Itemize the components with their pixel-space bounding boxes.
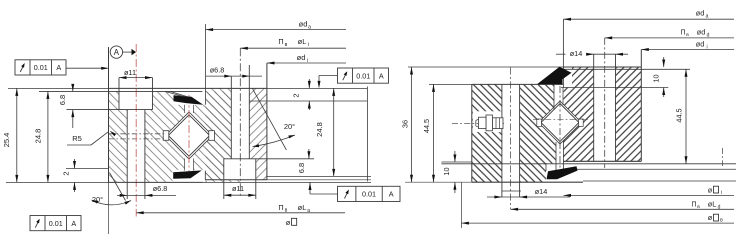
channel wall a2	[562, 88, 564, 106]
left counterbore hole (ø11) cutout	[119, 87, 153, 109]
dimension Пв ød_d R	[605, 27, 734, 39]
hole L wall left R	[501, 84, 503, 197]
dimension 44.5 right	[675, 69, 688, 164]
left view outer ring section left part (hatched)	[205, 88, 240, 179]
outer ring bottom step edge	[204, 171, 206, 180]
hole L wall right	[144, 110, 146, 199]
datum A balloon	[110, 46, 136, 58]
dimension ød_a top	[206, 19, 346, 31]
svg-text:i: i	[706, 44, 707, 50]
bottom roller channel cutout	[185, 156, 194, 170]
raceway notch left vertex	[163, 131, 169, 141]
seal step edge R	[562, 19, 564, 87]
svg-text:ø: ø	[708, 185, 713, 194]
feature control frame top right	[338, 68, 389, 83]
outer ring top second line R	[563, 68, 690, 70]
channel wall b	[562, 140, 564, 171]
left hole centerline R	[510, 68, 512, 210]
hole L wall right R	[519, 84, 521, 197]
top seal	[166, 92, 204, 105]
dimension 2 left	[62, 159, 77, 192]
roller diamond right view	[541, 104, 579, 142]
svg-text:36: 36	[401, 120, 410, 128]
raceway notch left vertex R	[537, 119, 542, 126]
dimension ø14 top	[556, 49, 628, 58]
svg-text:в: в	[720, 218, 723, 224]
svg-text:A: A	[56, 63, 61, 72]
roller cavity right view	[539, 101, 582, 144]
dimension 36	[401, 67, 414, 182]
svg-text:ød: ød	[299, 19, 308, 28]
svg-text:ø6.8: ø6.8	[210, 66, 225, 75]
dimension ø14 bottom	[487, 187, 570, 198]
svg-text:a: a	[706, 13, 709, 19]
outer ring relief line right	[249, 100, 367, 102]
hole R wall left	[230, 76, 232, 159]
right hole centerline R	[604, 38, 606, 168]
counterbore left floor + ext	[67, 109, 153, 111]
dimension 24.8 left	[34, 91, 50, 182]
dimension ød_i	[267, 53, 346, 64]
right ring bolt hole cutout	[594, 67, 616, 162]
svg-text:A: A	[71, 219, 76, 228]
svg-text:i: i	[721, 190, 722, 196]
inner ring top relief line	[39, 90, 202, 92]
nipple centerline	[452, 123, 504, 125]
hole R wall right R	[615, 54, 617, 161]
svg-text:ød: ød	[297, 53, 306, 62]
svg-text:ø11: ø11	[232, 184, 244, 193]
left edge ext R down	[460, 182, 462, 228]
svg-text:П: П	[680, 29, 685, 36]
roller centerline R	[559, 86, 561, 176]
svg-text:0.01: 0.01	[49, 219, 63, 228]
right view inner ring section (hatched)	[472, 84, 561, 182]
svg-text:0.01: 0.01	[356, 71, 370, 80]
right through hole (ø6.8) cutout	[231, 87, 249, 158]
svg-text:в: в	[686, 33, 689, 38]
svg-text:20°: 20°	[284, 122, 295, 131]
dimension 25.4	[2, 88, 18, 182]
grease nipple	[476, 115, 503, 131]
dimension 10 left	[442, 151, 456, 193]
fcf leader top right	[318, 76, 338, 89]
svg-text:24.8: 24.8	[34, 129, 43, 144]
svg-text:ø14: ø14	[570, 49, 583, 58]
svg-text:П: П	[278, 203, 283, 212]
channel wall a	[553, 84, 555, 110]
top seal R	[537, 67, 572, 84]
outer ring 20 deg bevel line	[252, 88, 286, 150]
bottom roller channel walls	[185, 159, 194, 171]
stray centerline right margin	[722, 148, 724, 166]
raceway center dash line upper	[109, 133, 166, 135]
inner ring bottom edge R + ext	[405, 181, 736, 182]
dimension Пв øL_d bottom R	[511, 199, 734, 210]
bottom seal groove cutout	[173, 170, 206, 183]
bottom seal	[173, 170, 202, 178]
bottom seal R	[547, 166, 578, 179]
svg-text:44.5: 44.5	[422, 119, 431, 133]
label øD bottom	[286, 218, 297, 227]
dimension 6.8 right	[297, 149, 311, 173]
svg-text:A: A	[389, 190, 394, 199]
svg-text:ød: ød	[696, 39, 705, 48]
dimension øD_a bottom R	[461, 213, 734, 224]
hole R wall right	[248, 65, 250, 159]
dimension 24.8 right	[315, 88, 335, 176]
svg-text:ød: ød	[696, 8, 705, 17]
dimension ød_i R	[641, 39, 734, 51]
svg-text:П: П	[691, 201, 696, 208]
counterbore right floor + ext	[224, 158, 314, 160]
grease nipple cavity cutout	[473, 111, 504, 132]
left view inner ring section (hatched)	[109, 91, 241, 182]
left view outer ring section right part (hatched)	[240, 88, 267, 179]
roller red centerline	[188, 95, 190, 176]
hole L wall left	[126, 110, 128, 199]
outer ring bottom edge R	[563, 160, 641, 162]
svg-text:ø11: ø11	[124, 68, 136, 77]
raceway center dash line lower	[109, 138, 166, 140]
right hole centerline	[239, 48, 241, 196]
left edge ext down	[108, 182, 110, 234]
dimension 6.8 left	[58, 84, 75, 128]
svg-text:в: в	[285, 208, 288, 214]
angle 20 deg right	[253, 122, 296, 147]
inner ring top edge R + ext	[429, 83, 563, 85]
dimension 10 right	[652, 57, 666, 97]
counterbore L wall right	[152, 78, 154, 110]
svg-text:в: в	[285, 42, 288, 48]
vertical ext line right of left view	[366, 87, 368, 182]
inner ring 20 deg bevel line	[110, 173, 126, 201]
left hole red centerline	[135, 44, 137, 217]
svg-text:ø14: ø14	[535, 187, 548, 196]
right view outer ring section (hatched)	[561, 67, 641, 162]
inner ring top edge	[8, 87, 367, 89]
raceway notch right vertex	[209, 131, 215, 141]
left ring left edge R	[471, 84, 473, 182]
svg-text:i: i	[307, 58, 308, 64]
svg-text:в: в	[697, 205, 700, 210]
feature control frame top left	[15, 60, 66, 75]
svg-text:ø6.8: ø6.8	[153, 184, 168, 193]
right counterbore hole (ø11) cutout	[224, 159, 256, 180]
seal line ext R	[570, 168, 736, 170]
feature control frame bottom left	[30, 216, 81, 231]
dimension 44.5 left	[422, 84, 435, 182]
inner bore relief ext	[66, 168, 109, 170]
svg-text:ød: ød	[697, 27, 706, 36]
dimension øD_i bottom R	[564, 185, 735, 197]
outer ring bottom relief ext	[267, 175, 371, 177]
outer ring top edge R + ext	[408, 66, 641, 68]
svg-text:2: 2	[62, 171, 71, 175]
svg-text:44.5: 44.5	[675, 108, 684, 122]
svg-text:0.01: 0.01	[362, 190, 376, 199]
svg-text:0.01: 0.01	[34, 63, 48, 72]
seal zone left wall bottom	[545, 163, 547, 171]
svg-text:A: A	[379, 71, 384, 80]
svg-text:10: 10	[442, 167, 451, 175]
svg-text:øL: øL	[298, 203, 307, 212]
top roller channel walls	[185, 105, 194, 113]
dimension Пв øL_a	[136, 203, 345, 215]
left ring bolt hole cutout	[502, 84, 520, 182]
dimension ø6.8 top	[206, 66, 262, 78]
dimension R5 with leader	[67, 131, 116, 145]
fcf leader bottom right	[309, 183, 338, 195]
top roller channel cutout	[185, 105, 194, 116]
outer ring bottom edge + ext	[205, 179, 371, 181]
raceway center dash R	[533, 119, 588, 121]
fcf leader top left	[66, 67, 109, 70]
outer ring right edge	[266, 63, 268, 180]
inner ring left edge (bore)	[108, 47, 110, 182]
svg-text:6.8: 6.8	[58, 95, 67, 105]
svg-text:øL: øL	[298, 37, 307, 46]
svg-text:R5: R5	[72, 134, 82, 143]
svg-text:øL: øL	[708, 199, 717, 208]
right ring right edge R	[640, 50, 642, 162]
bottom roller channel cutout R	[556, 137, 563, 163]
svg-text:25.4: 25.4	[2, 133, 11, 148]
channel wall c	[555, 142, 557, 170]
angle 20 deg bottom left	[92, 195, 132, 205]
inner ring bottom edge + ext	[6, 181, 371, 183]
dimension 2 right	[292, 79, 311, 110]
svg-text:A: A	[114, 48, 120, 57]
outer ring bottom ext R	[441, 163, 736, 165]
seal groove floor R	[561, 87, 668, 89]
top seal groove cutout	[174, 91, 206, 104]
hole R wall left R	[593, 54, 595, 161]
seal step edge + ext up	[205, 24, 207, 105]
counterbore L wall left	[118, 78, 120, 110]
ext line hole bottom R	[502, 190, 521, 192]
left through hole (ø6.8) cutout	[127, 110, 145, 183]
ext line 162 left	[441, 161, 471, 163]
svg-text:П: П	[278, 37, 283, 46]
svg-text:ø: ø	[286, 218, 291, 227]
roller (diamond) section	[168, 115, 209, 156]
dimension ø11 top	[119, 68, 153, 79]
svg-text:10: 10	[652, 74, 661, 82]
svg-text:ø: ø	[708, 213, 713, 222]
roller cavity (raceway)	[166, 112, 213, 159]
svg-text:d: d	[707, 32, 710, 38]
dimension ø11 bottom	[224, 184, 256, 197]
dimension Пв øL_i	[240, 37, 346, 50]
svg-text:a: a	[307, 208, 310, 214]
counterbore R wall left	[223, 159, 225, 199]
bottom seal zone cutout	[546, 163, 563, 182]
dimension ød_a R	[564, 8, 735, 20]
seal groove top cutout	[561, 67, 572, 88]
svg-text:6.8: 6.8	[297, 163, 306, 173]
svg-text:d: d	[718, 204, 721, 210]
counterbore R wall right	[255, 159, 257, 199]
svg-text:i: i	[308, 42, 309, 48]
feature control frame bottom right	[338, 186, 401, 201]
svg-text:a: a	[308, 24, 311, 30]
dimension ø6.8 bottom	[117, 184, 176, 197]
top roller channel cutout R	[554, 84, 564, 106]
svg-text:2: 2	[292, 93, 301, 97]
raceway notch right vertex R	[579, 119, 584, 126]
svg-text:24.8: 24.8	[315, 122, 324, 137]
